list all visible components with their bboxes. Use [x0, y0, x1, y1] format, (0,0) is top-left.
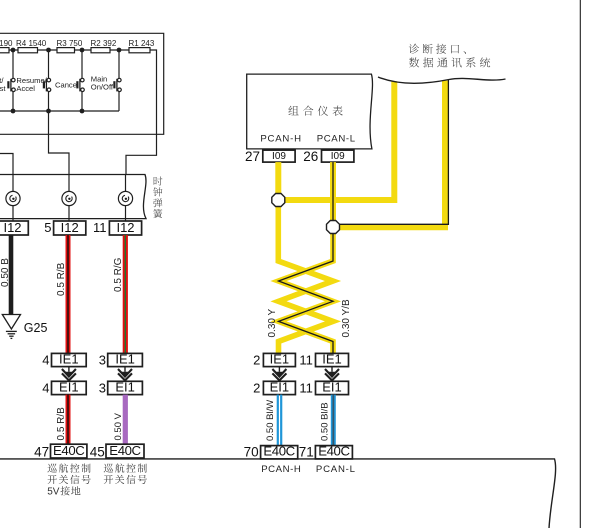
svg-text:0.50 Bl/B: 0.50 Bl/B	[319, 402, 330, 441]
junction node on PCAN-L	[327, 221, 340, 234]
svg-text:0.5 R/B: 0.5 R/B	[56, 407, 67, 441]
svg-text:IE1: IE1	[115, 351, 135, 366]
svg-text:0.50 V: 0.50 V	[113, 412, 124, 440]
svg-text:3: 3	[99, 380, 106, 395]
twisted pair 0.30 Y / 0.30 Y/B	[279, 234, 334, 354]
resistor R5 190 (partially clipped)	[0, 48, 9, 53]
label: 组合仪表	[288, 106, 298, 115]
switch S2 Resume/Accel	[48, 50, 50, 78]
svg-text:PCAN-L: PCAN-L	[317, 133, 356, 144]
junction on bottom bus 2	[46, 109, 51, 114]
svg-text:190: 190	[0, 39, 13, 48]
junction on top bus 4	[117, 48, 122, 53]
wire: switch bus down to clock spring (jog)	[49, 111, 70, 175]
junction on bottom bus 3	[80, 109, 85, 114]
inline connector arrow	[325, 367, 339, 380]
label: 诊断接口、数据通讯系统	[409, 44, 419, 54]
svg-text:E40C: E40C	[53, 443, 85, 458]
svg-text:2: 2	[253, 353, 260, 368]
junction on top bus 2	[46, 48, 51, 53]
junction on top bus 1	[11, 48, 16, 53]
svg-text:0.50 B: 0.50 B	[0, 258, 11, 287]
svg-text:EI1: EI1	[115, 379, 135, 394]
svg-text:G25: G25	[24, 321, 48, 335]
resistor R1 243	[129, 48, 150, 53]
inline connector arrow	[272, 367, 286, 380]
svg-text:Accel: Accel	[16, 84, 35, 93]
connector I12 pin (clipped left)	[0, 221, 28, 235]
svg-text:0.5 R/G: 0.5 R/G	[113, 257, 124, 292]
inline connector arrow	[118, 367, 132, 380]
diagnostic system boundary (wavy line)	[378, 77, 506, 83]
svg-text:IE1: IE1	[59, 351, 79, 366]
svg-text:PCAN-H: PCAN-H	[260, 133, 301, 144]
svg-text:E40C: E40C	[109, 443, 141, 458]
svg-text:5: 5	[44, 220, 51, 235]
svg-text:I12: I12	[3, 220, 21, 235]
wire 0.50 Bl/B (blue/black) EI1-11 to E40C-71	[331, 395, 336, 446]
svg-text:4: 4	[42, 380, 49, 395]
junction on top bus 3	[80, 48, 85, 53]
svg-text:EI1: EI1	[59, 379, 79, 394]
cruise control switch assembly box (clipped at left edge)	[0, 33, 164, 134]
svg-text:27: 27	[245, 149, 260, 164]
svg-text:Coast: Coast	[0, 84, 6, 93]
resistor R4 1540	[18, 48, 38, 53]
wire: yellow branch to diagnostic connector (solid Y)	[284, 81, 394, 200]
instrument cluster box 组合仪表 (wavy right edge)	[247, 74, 373, 149]
clock spring band (wavy right edge)	[0, 175, 146, 219]
svg-text:IE1: IE1	[322, 351, 342, 366]
svg-text:I12: I12	[61, 220, 79, 235]
wire: yellow/black branch to diagnostic connector	[340, 81, 446, 228]
svg-text:I12: I12	[116, 220, 134, 235]
label: 时钟弹簧 (clock spring)	[154, 177, 163, 186]
svg-text:PCAN-L: PCAN-L	[316, 464, 356, 475]
svg-text:On/Off: On/Off	[91, 83, 114, 92]
resistor R2 392	[91, 48, 110, 53]
svg-text:2: 2	[253, 380, 260, 395]
wire: ground feed from left edge into clock spring	[0, 154, 13, 175]
svg-text:5V: 5V	[47, 487, 60, 498]
svg-text:IE1: IE1	[270, 351, 290, 366]
svg-text:0.30 Y/B: 0.30 Y/B	[341, 299, 352, 338]
svg-text:45: 45	[90, 444, 105, 459]
svg-text:3: 3	[99, 353, 106, 368]
label: 巡航控制 开关信号	[104, 464, 113, 473]
svg-text:11: 11	[299, 353, 313, 368]
svg-text:0.30 Y: 0.30 Y	[267, 308, 278, 337]
clock spring coil 3	[125, 175, 127, 192]
svg-text:R1 243: R1 243	[129, 39, 155, 48]
svg-text:Cancel: Cancel	[55, 80, 79, 89]
wire PCAN-H yellow from I09-27	[275, 162, 281, 194]
svg-text:47: 47	[34, 444, 49, 459]
wire 0.50 B (black ground wire)	[9, 235, 14, 315]
svg-text:R3 750: R3 750	[57, 39, 83, 48]
switch S3 Cancel	[81, 50, 83, 78]
wire 0.50 Bl/W (blue/white) EI1-2 to E40C-70	[277, 395, 279, 446]
svg-text:R4 1540: R4 1540	[16, 39, 47, 48]
label: 巡航控制 开关信号 5V接地	[47, 464, 56, 473]
svg-text:11: 11	[299, 380, 313, 395]
svg-text:I09: I09	[331, 151, 345, 162]
wire: R1 243 output to clock spring (right jog)	[126, 50, 157, 175]
junction on bottom bus 1	[11, 109, 16, 114]
page border right	[579, 0, 581, 528]
ECM box top edge (curls down at right)	[0, 459, 556, 528]
svg-text:26: 26	[303, 149, 318, 164]
resistor R3 750	[57, 48, 75, 53]
wire 0.5 R/B (red/black) I12-5 to IE1-4	[66, 235, 71, 353]
svg-text:E40C: E40C	[318, 444, 350, 459]
svg-text:EI1: EI1	[270, 379, 290, 394]
svg-text:PCAN-H: PCAN-H	[261, 464, 301, 475]
ground G25	[2, 315, 20, 330]
svg-text:4: 4	[42, 353, 49, 368]
svg-text:70: 70	[244, 444, 259, 459]
svg-text:11: 11	[93, 220, 107, 235]
wire 0.5 R/B EI1-4 to E40C-47	[66, 395, 71, 445]
wire PCAN-L yellow/black from I09-26	[330, 162, 336, 220]
wire: top resistor bus	[0, 49, 150, 51]
svg-text:0.50 Bl/W: 0.50 Bl/W	[265, 400, 276, 441]
svg-text:I09: I09	[272, 151, 286, 162]
wire 0.5 R/G (red/green) I12-11 to IE1-3	[123, 235, 128, 353]
wire: bottom switch bus	[0, 110, 119, 112]
svg-text:R2 392: R2 392	[91, 39, 117, 48]
svg-text:E40C: E40C	[263, 444, 295, 459]
clock spring coil 2	[68, 175, 70, 192]
inline connector arrow	[62, 367, 76, 380]
svg-text:0.5 R/B: 0.5 R/B	[56, 262, 67, 296]
clock spring coil 1	[12, 175, 14, 192]
svg-text:EI1: EI1	[322, 379, 342, 394]
wire 0.50 V (violet) EI1-3 to E40C-45	[123, 395, 128, 445]
svg-text:71: 71	[299, 444, 314, 459]
switch S4 Main On/Off	[118, 50, 120, 78]
junction node on PCAN-H	[272, 194, 285, 207]
switch S1 Set/Coast (clipped)	[12, 50, 14, 78]
